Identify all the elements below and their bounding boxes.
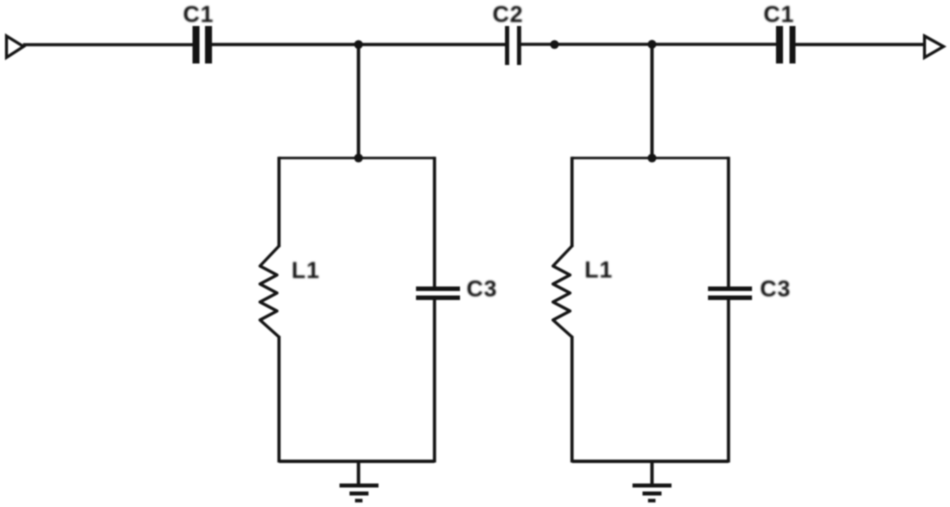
left tank: left edge upper wire [277,157,280,247]
wire C1 to C2 [212,43,506,46]
node dot right tank tap [648,40,657,49]
wire stub down to right tank [650,44,653,158]
svg-text:L1: L1 [292,257,320,283]
svg-text:C3: C3 [760,276,791,302]
right tank: right edge upper wire [727,157,730,287]
right tank: bottom wire [572,460,729,463]
right tank: top wire [572,157,729,160]
ground symbol (left) [340,484,379,503]
capacitor C1 (right) [776,26,796,64]
left tank: left edge lower wire [277,336,280,463]
capacitor C3 (right) [708,287,752,301]
right tank: left edge upper wire [570,157,573,247]
right ground stub [650,461,653,485]
capacitor C3 (left) [416,287,460,301]
node dot left tank tap [354,40,363,49]
inductor L1 (right) [553,246,572,337]
right tank: left edge lower wire [570,336,573,463]
node dot on left tank top [354,154,363,163]
left tank: top wire [279,157,435,160]
capacitor C1 (left) [193,26,213,64]
output port terminal [925,36,944,58]
svg-text:C1: C1 [183,1,214,27]
svg-text:C3: C3 [467,276,498,302]
wire right C1 to output [796,43,925,46]
input port terminal [7,36,24,58]
left tank: bottom wire [279,460,435,463]
left tank: right edge lower wire [433,300,436,463]
wire C2 to right C1 [521,43,777,46]
svg-text:C1: C1 [764,1,795,27]
svg-text:C2: C2 [493,1,524,27]
wire input to C1 [23,43,193,46]
wire stub down to left tank [357,45,360,159]
ground symbol (right) [633,484,672,503]
left tank: right edge upper wire [433,157,436,287]
node dot mid [550,40,559,49]
left ground stub [357,461,360,485]
svg-text:L1: L1 [585,257,613,283]
node dot on right tank top [648,154,657,163]
right tank: right edge lower wire [727,300,730,463]
inductor L1 (left) [260,246,279,337]
capacitor C2 [505,26,521,65]
